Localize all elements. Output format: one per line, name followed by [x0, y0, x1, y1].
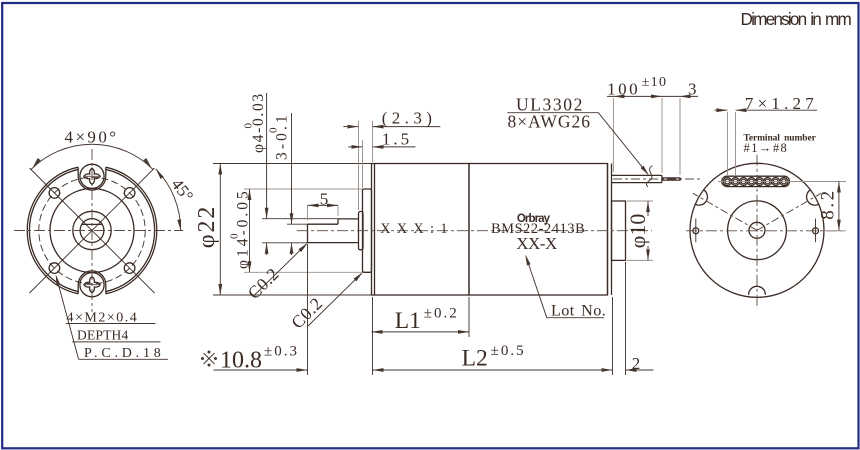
svg-text:1.5: 1.5 — [382, 129, 412, 148]
svg-text:7×1.27: 7×1.27 — [745, 94, 818, 113]
extension line phi14 face — [362, 140, 364, 188]
svg-text:±10: ±10 — [642, 75, 668, 90]
rear view diagonal centerline left — [693, 193, 757, 230]
extension line wire break — [661, 98, 663, 173]
svg-text:Lot No.: Lot No. — [551, 302, 606, 320]
dimension phi14 — [248, 189, 252, 272]
extension line wire root — [612, 98, 614, 172]
dimension phi4 — [265, 93, 269, 255]
extension line case rear bottom — [612, 297, 614, 375]
label 3 tolerance — [268, 112, 291, 160]
dimension 10.8 — [214, 368, 308, 372]
front view phi14 boss circle — [50, 189, 134, 273]
svg-text:#1→#8: #1→#8 — [744, 141, 789, 155]
front view M2 screw hole 1 — [49, 188, 60, 199]
label L1 — [395, 306, 459, 334]
front view top mounting screw — [78, 162, 106, 190]
rear view left side hole — [693, 219, 699, 243]
front view bottom mounting screw — [78, 271, 106, 299]
dimension L1 — [372, 330, 470, 334]
label C0.2 boss — [287, 293, 326, 332]
label phi22 — [194, 205, 220, 249]
svg-text:L2: L2 — [462, 346, 488, 372]
extension line 8.2 bottom — [824, 230, 846, 232]
front view diagonal line 135-315 — [30, 168, 155, 293]
side view rear boss phi10 — [612, 201, 626, 260]
label XX-X — [516, 234, 557, 253]
label 5 — [320, 189, 329, 208]
label Terminal number — [744, 134, 817, 144]
svg-text:±0.2: ±0.2 — [424, 306, 459, 322]
dimension 3 wire — [662, 95, 698, 99]
front view phi6.5 bearing boss circle — [73, 211, 111, 249]
side view front boss phi14 — [363, 189, 372, 272]
side view shaft centerline — [297, 230, 652, 232]
rear view notch upper-right — [807, 190, 820, 206]
label 7x1.27 — [745, 94, 818, 113]
extension line shaft tip — [307, 244, 309, 375]
front view M2 screw hole 3 — [49, 263, 60, 274]
svg-text:φ4-0.03: φ4-0.03 — [250, 92, 267, 153]
extension line gearbox face bottom — [372, 297, 374, 375]
svg-text:Dimension in mm: Dimension in mm — [741, 9, 852, 29]
leader line to M2 hole — [56, 274, 79, 359]
svg-text:10.8: 10.8 — [220, 348, 262, 374]
side view gearbox housing — [372, 164, 470, 296]
extension line boss face — [358, 121, 360, 210]
label (2.3) — [382, 109, 437, 128]
svg-text:φ14-0.05: φ14-0.05 — [235, 188, 252, 269]
dimension phi22 — [218, 164, 222, 296]
dimension arc 45deg — [156, 169, 181, 231]
svg-text:±0.5: ±0.5 — [491, 343, 526, 359]
extension line phi4 top — [262, 218, 338, 220]
lead wire bundle — [612, 175, 681, 182]
terminal connector outline — [722, 176, 790, 186]
label 8xAWG26 — [508, 112, 592, 132]
rear view notch bottom — [749, 286, 766, 294]
label BMS22-2413B — [491, 221, 585, 237]
svg-text:(2.3): (2.3) — [382, 109, 437, 128]
dimension 3 across flat — [290, 113, 294, 255]
rear view phi10 hub circle — [728, 201, 787, 260]
label 4x90deg — [65, 128, 119, 147]
label 1.5 — [382, 129, 412, 148]
front view inner rim circle — [29, 169, 154, 291]
rear view diagonal centerline right — [757, 193, 821, 230]
extension line flat top — [287, 223, 308, 225]
label phi14 tolerance — [229, 188, 252, 269]
dimension 8.2 — [837, 182, 841, 231]
label 45deg — [168, 175, 198, 205]
svg-text:L1: L1 — [395, 308, 421, 334]
leader C0.2 boss — [308, 272, 363, 326]
extension lines 7x1.27 — [727, 112, 735, 176]
svg-text:φ10: φ10 — [625, 214, 650, 249]
svg-text:XX-X: XX-X — [516, 234, 557, 253]
front view M2 screw hole 2 — [124, 188, 135, 199]
label 10.8 — [202, 344, 299, 374]
wire centerline — [613, 178, 700, 180]
front view horizontal centerline — [14, 230, 183, 232]
rear view body circle — [690, 163, 824, 297]
extension line gearbox face — [372, 121, 374, 162]
dimension arc 4x90deg — [31, 144, 153, 169]
side view motor case — [469, 164, 612, 296]
side view bearing boss phi6.5 — [359, 212, 364, 250]
label XXX:1 — [380, 221, 454, 237]
terminal pins 1-8 — [723, 178, 787, 186]
terminal row centerline — [718, 181, 846, 183]
extension lines phi14 — [244, 189, 363, 272]
svg-text:XXX:1: XXX:1 — [380, 221, 454, 237]
label 2 — [632, 354, 641, 373]
dimension 1.5 — [348, 145, 415, 149]
dimension 100 — [607, 95, 662, 99]
extension line shaft bottom — [262, 242, 308, 244]
rear view notch upper-left — [695, 190, 708, 206]
dimension 7x1.27 — [715, 108, 818, 112]
front view phi4 shaft circle with D-cut flat — [80, 219, 104, 243]
extension lines 5 — [308, 205, 339, 220]
extension line wire tip — [679, 98, 681, 175]
extension line L1 right — [468, 297, 470, 337]
wire break symbol — [646, 166, 652, 188]
svg-text:100: 100 — [607, 80, 640, 99]
label C0.2 shaft — [244, 264, 283, 303]
svg-text:8×AWG26: 8×AWG26 — [508, 112, 592, 132]
rear view right side hole — [813, 219, 819, 243]
front view diagonal line 45-225 — [30, 168, 155, 293]
label 8.2 — [818, 188, 839, 220]
svg-text:5: 5 — [320, 189, 329, 208]
logo Orbray — [517, 213, 551, 225]
svg-text:DEPTH4: DEPTH4 — [77, 327, 128, 342]
rear view vertical centerline — [756, 155, 758, 309]
leader Lot No to XX-X — [525, 255, 547, 318]
svg-text:0: 0 — [229, 233, 241, 239]
svg-text:0: 0 — [243, 123, 255, 129]
dimension 2.3 — [343, 125, 440, 129]
side view shaft phi4 with flat — [308, 219, 359, 243]
svg-text:3-0.1: 3-0.1 — [274, 112, 291, 160]
leader C0.2 shaft — [255, 243, 308, 295]
extension line boss rear — [625, 262, 627, 375]
svg-text:2: 2 — [632, 354, 641, 373]
extension lines phi10 — [627, 201, 653, 260]
note Dimension in mm — [741, 9, 852, 29]
label phi10 — [625, 214, 650, 249]
dimension 5 — [308, 204, 339, 208]
rear view horizontal centerline — [686, 230, 846, 232]
label L2 — [462, 343, 526, 372]
dimension L2 — [373, 368, 614, 372]
label 3 wire — [688, 80, 697, 99]
extension lines phi22 — [213, 164, 372, 296]
label terminal 1 to 8 — [744, 141, 789, 155]
svg-text:φ22: φ22 — [194, 205, 220, 249]
label DEPTH4 — [72, 327, 160, 342]
leader to wire — [598, 113, 649, 176]
svg-text:±0.3: ±0.3 — [264, 344, 299, 360]
front view vertical centerline — [91, 149, 93, 312]
svg-text:0: 0 — [268, 127, 280, 133]
front view outer body circle phi22 — [27, 167, 157, 294]
label 100+-10 — [607, 75, 667, 99]
label UL3302 — [507, 94, 598, 114]
front view P.C.D.18 bolt circle (dashed) — [39, 177, 145, 283]
rear view center hole — [749, 222, 765, 238]
label 4xM2x0.4 — [66, 311, 156, 326]
dimension phi10 — [646, 201, 650, 260]
dimension 2 rear boss — [626, 368, 654, 372]
label P.C.D.18 — [79, 346, 168, 361]
svg-text:8.2: 8.2 — [818, 188, 839, 220]
label Lot No — [547, 302, 607, 320]
svg-text:4×90°: 4×90° — [65, 128, 119, 147]
front view M2 screw hole 4 — [124, 263, 135, 274]
svg-text:3: 3 — [688, 80, 697, 99]
label phi4 tolerance — [243, 92, 268, 153]
